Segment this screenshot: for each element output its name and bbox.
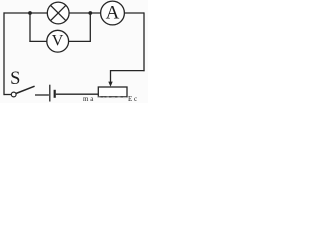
wire voltmeter branch left vertical — [29, 13, 31, 42]
wire lamp to ammeter — [69, 12, 101, 14]
rheostat R body — [98, 87, 127, 97]
wire ammeter to right corner — [124, 12, 144, 14]
wire voltmeter branch right vertical — [89, 13, 91, 42]
svg-text:m a: m a — [83, 95, 94, 103]
switch S lever — [16, 86, 35, 93]
node junction dot left — [28, 11, 32, 15]
svg-text:A: A — [106, 3, 120, 24]
ammeter U-A circle — [101, 1, 125, 25]
lamp L1 cross — [51, 5, 66, 20]
rheostat slider arrowhead — [108, 82, 112, 87]
wire right vertical — [143, 12, 145, 71]
wire left vertical — [3, 12, 5, 95]
wire voltmeter branch left horizontal — [29, 40, 47, 42]
wire voltmeter branch right horizontal — [69, 40, 91, 42]
wire top-left horizontal — [4, 12, 48, 14]
svg-text:V: V — [52, 33, 64, 50]
svg-text:S: S — [10, 69, 20, 89]
wire right-to-slider horizontal — [111, 70, 145, 72]
svg-text:E c: E c — [128, 95, 137, 103]
node junction dot right — [88, 11, 92, 15]
battery long plate — [49, 85, 51, 102]
switch S pivot circle — [11, 92, 16, 97]
voltmeter U-V circle — [47, 30, 69, 52]
wire battery to rheostat — [56, 93, 99, 95]
watermark dashes — [98, 96, 127, 98]
lamp L1 circle — [47, 2, 69, 24]
battery short plate — [54, 90, 56, 98]
wire slider stem — [110, 70, 112, 83]
wire switch to battery — [35, 94, 49, 96]
wire left corner to switch pivot — [4, 94, 12, 96]
